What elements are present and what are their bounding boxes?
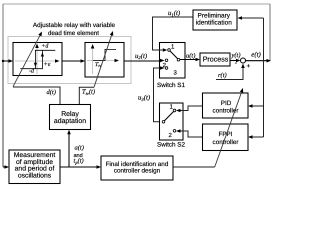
svg-text:controller: controller xyxy=(213,139,239,146)
svg-text:Adjustable relay with variable: Adjustable relay with variable xyxy=(33,22,116,29)
svg-text:+ε: +ε xyxy=(44,61,51,68)
svg-text:oscillations: oscillations xyxy=(18,173,52,180)
wire: loop right vertical xyxy=(269,4,271,61)
svg-text:PID: PID xyxy=(221,100,232,107)
wire: branch to PID xyxy=(252,105,264,107)
relay hysteresis loop xyxy=(35,50,55,68)
S2 lever xyxy=(164,111,173,121)
FPPI adjustment diagonal arrow xyxy=(215,90,243,167)
svg-text:Preliminary: Preliminary xyxy=(198,12,231,19)
relay adjustment diagonal arrow xyxy=(13,33,41,86)
wire: dead time output u2 xyxy=(124,60,160,62)
S2 contact 1 xyxy=(173,109,176,112)
relay graph v-axis xyxy=(36,46,38,74)
wire: PID output to S2 contact 1 xyxy=(181,106,203,111)
svg-text:u(t): u(t) xyxy=(186,53,195,60)
wire: u1 from preliminary identification to S1 contact 1 xyxy=(153,17,194,50)
svg-text:Ttv(t): Ttv(t) xyxy=(82,89,95,96)
wire: feedback vertical to controllers and preliminary id xyxy=(263,18,265,137)
svg-text:y(t): y(t) xyxy=(231,52,241,59)
dead time element box xyxy=(85,43,124,78)
summing junction xyxy=(241,58,246,63)
svg-text:dead time element: dead time element xyxy=(48,30,99,37)
S1 contact 2 xyxy=(165,59,168,62)
process box xyxy=(200,53,230,66)
svg-text:u1(t): u1(t) xyxy=(168,10,181,17)
svg-text:a(t): a(t) xyxy=(75,145,84,152)
dead time h-axis xyxy=(87,60,115,62)
wire: input to measurement xyxy=(3,166,5,168)
S1 pole xyxy=(177,58,180,61)
junction dot xyxy=(2,60,4,62)
relay adaptation box xyxy=(50,105,91,130)
svg-text:Relay: Relay xyxy=(61,111,79,118)
S1 contact 3 xyxy=(165,67,168,70)
dead time adjustment diagonal arrow xyxy=(94,33,112,87)
wire: e(t) output xyxy=(246,60,268,62)
wire: FPPI output to S2 contact 2 xyxy=(181,131,203,137)
svg-text:adaptation: adaptation xyxy=(54,118,86,125)
svg-text:+d: +d xyxy=(41,43,49,50)
wire: u3 from S2 pole to S1 contact 3 xyxy=(154,68,163,122)
wire: final identification to FPPI diagonal xyxy=(173,166,215,168)
measurement box xyxy=(9,150,60,184)
svg-text:u3(t): u3(t) xyxy=(138,95,151,102)
svg-text:Switch S2: Switch S2 xyxy=(157,142,185,149)
svg-text:Process: Process xyxy=(203,56,229,64)
wire: Ttv(t) from relay adaptation xyxy=(79,87,94,104)
wire: loop left vertical xyxy=(2,4,4,61)
switch S2 box xyxy=(160,103,184,140)
S1 contact 1 xyxy=(168,49,171,52)
final identification box xyxy=(101,156,173,180)
container: adjustable relay with variable dead time element (gray) xyxy=(8,37,131,84)
wire: u2 arrow into S1 contact 2 xyxy=(160,59,165,63)
wire: left feedback vertical down to measurement xyxy=(2,61,4,167)
wire: input to relay xyxy=(3,60,9,62)
S1 lever xyxy=(170,51,178,59)
wire: process output y(t) xyxy=(230,60,237,62)
wire: outer feedback loop top edge xyxy=(3,3,270,5)
FPPI controller box xyxy=(203,124,249,151)
svg-text:e(t): e(t) xyxy=(251,52,261,59)
relay element box xyxy=(13,43,62,76)
wire: branch to FPPI xyxy=(252,136,264,138)
wire: S1 pole to process u(t) xyxy=(180,59,196,61)
S2 pole xyxy=(162,121,165,124)
dead time v-axis xyxy=(92,46,94,74)
S2 contact 2 xyxy=(173,130,176,133)
dead time step curve xyxy=(93,49,116,60)
wire: d(t) from relay adaptation xyxy=(13,87,60,105)
wire: relay to dead time xyxy=(62,60,81,62)
preliminary identification box xyxy=(193,10,237,30)
wire: riser to relay adaptation xyxy=(68,134,70,167)
svg-text:tp(t): tp(t) xyxy=(74,158,84,165)
switch S1 box xyxy=(160,43,186,79)
svg-text:controller design: controller design xyxy=(114,167,161,174)
wire: branch to preliminary identification xyxy=(241,17,264,19)
PID controller box xyxy=(203,93,249,118)
wire: measurement to final identification xyxy=(60,166,97,168)
svg-text:r(t): r(t) xyxy=(218,72,227,79)
svg-text:identification: identification xyxy=(196,19,233,26)
svg-text:d(t): d(t) xyxy=(47,89,56,96)
svg-text:u2(t): u2(t) xyxy=(135,53,148,60)
svg-text:Switch S1: Switch S1 xyxy=(157,82,185,89)
wire: r(t) input xyxy=(216,67,243,80)
svg-text:+: + xyxy=(247,63,251,70)
relay graph h-axis xyxy=(15,60,56,62)
